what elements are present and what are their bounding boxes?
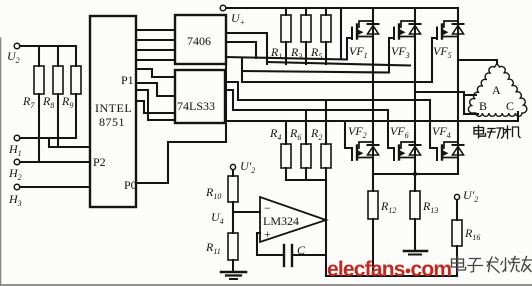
wire R12 top lead	[372, 174, 374, 191]
resistor R1	[281, 15, 291, 42]
wire VF4 gate leg	[430, 100, 437, 148]
wire R2 bottom lead	[325, 168, 327, 180]
wire P1 to 74LS33 in2	[136, 83, 175, 96]
wire top supply rail	[226, 7, 458, 9]
terminal U2	[14, 43, 20, 49]
wire VF2 gate leg	[345, 121, 352, 148]
wire P0 staircase	[136, 142, 226, 183]
capacitor C	[283, 245, 285, 266]
wire R9 top lead	[75, 46, 77, 66]
transistor VF5	[437, 21, 458, 39]
resistor R13	[410, 191, 420, 219]
svg-text:R13: R13	[422, 199, 438, 215]
diode VF4	[453, 145, 464, 155]
svg-text:R6: R6	[289, 126, 301, 142]
ground R13	[404, 250, 427, 253]
svg-text:H3: H3	[8, 192, 22, 208]
svg-text:LM324: LM324	[263, 214, 299, 228]
wire phase B stub	[464, 94, 476, 96]
wire R7 top lead	[38, 46, 40, 66]
wire P1 to 74LS33 in3	[136, 90, 175, 120]
resistor R6 top lead	[305, 110, 307, 144]
wire VF1 gate leg	[347, 38, 352, 58]
svg-text:U4: U4	[211, 210, 224, 226]
IC U2 8751 box	[90, 16, 136, 207]
wire 8751 to 7406 pin3	[136, 49, 175, 51]
svg-text:U′2: U′2	[463, 188, 478, 204]
wire gate line VF6	[233, 109, 388, 111]
wire 8751 to 7406 pin2	[136, 39, 175, 41]
wire half-bridge column 2	[414, 8, 416, 174]
wire 8751 to 7406 pin4	[136, 59, 175, 61]
svg-text:R5: R5	[310, 45, 322, 61]
terminal H1	[14, 135, 20, 141]
wire to capacitor	[257, 254, 284, 256]
svg-text:B: B	[479, 99, 487, 113]
diode VF6	[410, 145, 421, 155]
wire R16 bottom lead	[456, 246, 458, 276]
svg-text:R8: R8	[42, 94, 54, 110]
resistor R11	[228, 233, 238, 260]
label motor 电动机	[474, 126, 520, 139]
svg-text:−: −	[264, 201, 271, 215]
svg-text:U2: U2	[7, 49, 20, 65]
wire op-amp output column	[325, 180, 327, 276]
wire 7406 out1	[226, 33, 267, 64]
border left edge	[0, 38, 2, 285]
wire half-bridge column 3	[457, 8, 459, 174]
svg-text:R12: R12	[380, 199, 396, 215]
wire phase A to motor	[458, 60, 497, 64]
wire 74LS33 out1	[225, 82, 238, 100]
svg-text:R2: R2	[310, 126, 322, 142]
svg-text:P1: P1	[121, 73, 134, 87]
svg-text:U′2: U′2	[240, 159, 255, 175]
wire R6 bottom lead	[305, 168, 307, 180]
svg-text:74LS33: 74LS33	[177, 99, 215, 113]
svg-text:R11: R11	[205, 240, 221, 256]
wire H2 to 8751	[20, 161, 90, 163]
wire R16 top lead	[456, 200, 458, 220]
svg-text:elecfans●com: elecfans●com	[327, 258, 451, 281]
wire gate line VF3	[267, 62, 410, 66]
wire H1 jog to 8751	[49, 138, 90, 147]
resistor R4	[281, 144, 291, 168]
resistor R3	[301, 15, 311, 42]
resistor R12	[368, 191, 378, 219]
svg-text:R1: R1	[270, 45, 282, 61]
wire R7 bottom lead to H2 line	[38, 94, 40, 162]
motor M delta winding	[468, 64, 526, 117]
diode VF3	[410, 24, 421, 34]
wire bottom rail	[326, 275, 457, 277]
svg-text:INTEL: INTEL	[95, 101, 132, 115]
wire R5 bottom lead	[325, 42, 327, 64]
wire 7406 out2	[226, 42, 256, 58]
wire 7406 corner bus down	[225, 64, 227, 142]
terminal U2p mid	[230, 164, 235, 169]
wire capacitor to output column	[292, 254, 326, 256]
svg-text:VF1: VF1	[349, 44, 368, 60]
svg-text:R16: R16	[464, 226, 480, 242]
svg-text:R9: R9	[61, 94, 73, 110]
transistor VF3	[394, 21, 415, 39]
ground	[221, 271, 246, 274]
wire rail stub R3	[305, 8, 307, 15]
svg-text:7406: 7406	[187, 34, 211, 48]
transistor VF1	[352, 21, 373, 39]
svg-text:C: C	[506, 99, 514, 113]
wire H1 line	[20, 137, 76, 139]
resistor R6	[301, 144, 311, 168]
svg-text:R7: R7	[22, 94, 35, 110]
wire 8751 to 7406 pin1	[136, 29, 175, 31]
resistor R2 top lead	[325, 100, 327, 144]
svg-text:P0: P0	[124, 178, 137, 192]
wire 74LS33 out2	[225, 90, 233, 110]
svg-text:R4: R4	[269, 126, 281, 142]
wire rail stub R5	[325, 8, 327, 15]
wire gate line VF5	[242, 81, 432, 83]
wire rail stub R1	[285, 8, 287, 15]
svg-text:+: +	[264, 227, 271, 241]
wire R8 top lead	[57, 46, 59, 66]
resistor R7	[34, 66, 44, 94]
op-amp U3 LM324	[260, 197, 326, 242]
wire R10 top lead	[232, 170, 234, 176]
wire gate line VF2 and phase C	[225, 112, 518, 121]
watermark 电子发烧友	[452, 257, 532, 273]
wire R13 bottom lead	[414, 219, 416, 251]
wire op-amp plus input	[257, 233, 260, 255]
wire R10 to U4 node	[232, 202, 234, 233]
diode VF2	[368, 145, 379, 155]
wire gate line VF4	[238, 99, 430, 101]
resistor R4 top lead	[285, 121, 287, 144]
diode VF5	[453, 24, 464, 34]
wire U2 to pullups	[20, 45, 76, 47]
border bottom edge	[0, 284, 532, 286]
transistor VF6	[394, 142, 415, 160]
wire gate line VF3b	[242, 71, 389, 73]
wire H3 to 8751	[20, 186, 90, 188]
transistor VF4	[437, 142, 458, 160]
wire P1 to 74LS33 in4	[136, 101, 175, 113]
wire gate line VF1	[226, 57, 347, 60]
transistor VF2	[352, 142, 373, 160]
svg-text:8751: 8751	[99, 115, 125, 129]
wire branch v242	[241, 58, 243, 82]
svg-text:A: A	[492, 83, 501, 97]
terminal H3	[14, 184, 20, 190]
svg-text:P2: P2	[93, 155, 106, 169]
terminal U+	[220, 5, 226, 11]
wire R1 bottom lead	[285, 42, 287, 64]
resistor R9	[71, 66, 81, 94]
wire rail branch x341	[340, 8, 342, 58]
svg-text:H2: H2	[8, 166, 22, 182]
diode VF1	[368, 24, 379, 34]
wire phase B to motor	[415, 92, 478, 114]
svg-text:C: C	[297, 243, 306, 257]
resistor R16	[452, 220, 462, 246]
wire VF3 gate leg	[389, 38, 394, 72]
svg-text:R10: R10	[205, 185, 221, 201]
IC 74LS33 box	[175, 70, 225, 123]
svg-text:H1: H1	[8, 142, 22, 158]
wire R13 top lead	[414, 174, 416, 191]
svg-text:VF3: VF3	[391, 44, 410, 60]
terminal H2	[14, 159, 20, 165]
svg-text:VF2: VF2	[348, 124, 367, 140]
resistor R2	[321, 144, 331, 168]
resistor R8	[53, 66, 63, 94]
wire R9 bottom lead to H1 line	[75, 94, 77, 138]
wire P1 to 74LS33 in1	[136, 69, 175, 77]
svg-text:VF6: VF6	[390, 124, 409, 140]
wire R12 bottom lead	[372, 219, 374, 276]
wire U4 to op-amp	[233, 211, 260, 213]
wire R11 bottom lead	[232, 260, 234, 271]
svg-text:VF5: VF5	[433, 44, 452, 60]
terminal U2p right	[454, 194, 459, 199]
svg-text:VF4: VF4	[432, 124, 451, 140]
svg-text:R3: R3	[290, 45, 302, 61]
wire R3 bottom lead	[305, 42, 307, 64]
node R13 junction	[413, 172, 417, 176]
wire source rail	[373, 173, 458, 175]
resistor R10	[228, 176, 238, 202]
IC 7406 box	[175, 15, 226, 64]
resistor R5	[321, 15, 331, 42]
wire VF5 gate leg	[432, 38, 437, 82]
wire gate pulldown rail	[286, 179, 326, 181]
wire VF6 gate leg	[388, 110, 394, 148]
svg-text:U+: U+	[231, 11, 245, 27]
wire half-bridge column 1	[372, 8, 374, 174]
wire R4 bottom lead	[285, 168, 287, 180]
wire R8 bottom lead to mid line	[57, 94, 59, 147]
